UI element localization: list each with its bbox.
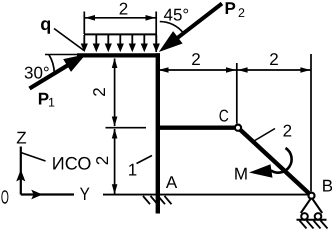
svg-text:A: A	[166, 173, 178, 192]
svg-text:Z: Z	[16, 129, 26, 148]
svg-text:1: 1	[128, 161, 137, 180]
svg-text:2: 2	[283, 122, 292, 141]
svg-text:30°: 30°	[24, 64, 50, 83]
svg-text:45°: 45°	[164, 6, 190, 25]
svg-text:2: 2	[93, 156, 112, 165]
svg-text:2: 2	[269, 50, 278, 69]
svg-text:Y: Y	[80, 184, 90, 204]
svg-text:ИСО: ИСО	[52, 154, 92, 174]
svg-text:2: 2	[119, 0, 128, 19]
svg-text:C: C	[219, 106, 229, 125]
svg-text:M: M	[234, 165, 248, 184]
svg-text:B: B	[322, 177, 332, 196]
svg-text:2: 2	[90, 87, 109, 96]
svg-text:q: q	[40, 14, 51, 34]
svg-text:1: 1	[48, 96, 55, 110]
svg-text:О: О	[1, 188, 9, 209]
svg-text:2: 2	[191, 50, 200, 69]
svg-text:2: 2	[238, 6, 245, 20]
svg-text:P: P	[225, 0, 236, 18]
